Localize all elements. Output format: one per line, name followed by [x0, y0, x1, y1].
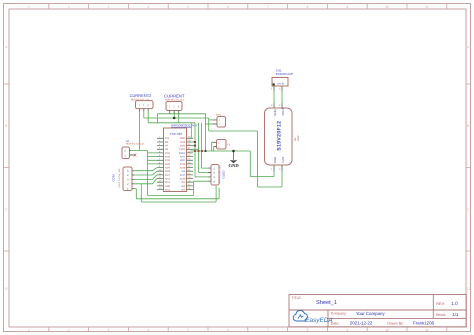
junction at CURRENT.2 [173, 117, 175, 119]
wire V9 [249, 151, 251, 177]
svg-text:IO22: IO22 [180, 145, 186, 148]
MCU U2 pin numbers [159, 136, 191, 190]
svg-text:+VIN: +VIN [281, 157, 285, 164]
svg-text:6: 6 [227, 5, 229, 9]
svg-text:GND: GND [273, 157, 277, 163]
connector COM (1x5) [111, 167, 134, 191]
wire COM.5 to U2 [134, 168, 157, 171]
wire COM.3 to U2 [134, 175, 157, 179]
svg-text:4: 4 [147, 328, 149, 332]
wire H_c y122.8 [148, 122, 195, 124]
title block [289, 295, 466, 327]
svg-text:4: 4 [147, 5, 149, 9]
wire H_a y114.5 [158, 113, 206, 115]
svg-text:IO26: IO26 [165, 170, 171, 173]
wire U2 pin19 to OLED.2 riser [193, 123, 208, 173]
svg-text:9: 9 [346, 5, 348, 9]
svg-text:Your Company: Your Company [356, 311, 386, 316]
wire CURRENT.1 down [169, 113, 171, 115]
wire CURRENT2.3 down [147, 112, 149, 123]
svg-text:GND: GND [273, 109, 277, 115]
svg-text:REV:: REV: [436, 302, 445, 306]
svg-text:IO34: IO34 [165, 152, 171, 155]
connector CURRENT (J1) [164, 94, 185, 114]
svg-text:IO14: IO14 [165, 178, 171, 181]
wires (green) [131, 91, 282, 203]
junction GND row a [194, 150, 196, 152]
connector CURRENT2 (J2) [130, 93, 153, 112]
svg-text:TITLE:: TITLE: [292, 296, 302, 300]
svg-text:1/1: 1/1 [452, 312, 459, 317]
svg-text:3V3: 3V3 [165, 137, 170, 140]
wire V7 [208, 118, 210, 131]
wire OLED.4 drop [194, 181, 208, 195]
svg-text:12V IN: 12V IN [277, 83, 284, 86]
svg-text:10: 10 [385, 328, 389, 332]
svg-text:VN: VN [165, 148, 169, 151]
regulator U1 S19V20F12 [265, 103, 301, 172]
2-pin part F1 [212, 140, 231, 150]
svg-text:EasyEDA: EasyEDA [305, 317, 332, 324]
svg-text:Drawn By:: Drawn By: [387, 321, 404, 325]
svg-text:5: 5 [187, 5, 189, 9]
svg-text:IO18: IO18 [180, 167, 186, 170]
svg-text:RXD0: RXD0 [179, 152, 186, 155]
svg-text:IO16: IO16 [180, 178, 186, 181]
wire V6 [205, 114, 207, 151]
wire U2 left rows [148, 153, 158, 164]
svg-text:GND: GND [180, 137, 185, 140]
wire OLED.3 to V_c [195, 176, 208, 178]
wire H_k to U1 GND [250, 176, 274, 178]
wire V_c [194, 123, 196, 177]
wire H_b y118 [144, 117, 209, 119]
svg-text:ESP-32S: ESP-32S [170, 132, 182, 136]
svg-text:9: 9 [346, 328, 348, 332]
wire H4.2 run [131, 149, 148, 151]
wire CURRENT.3 down [178, 114, 180, 123]
svg-text:5: 5 [187, 328, 189, 332]
wire W2 bottom [141, 184, 216, 202]
svg-text:IO23: IO23 [180, 141, 186, 144]
junction GND row b [198, 150, 200, 152]
svg-text:8: 8 [307, 328, 309, 332]
svg-text:IO13: IO13 [165, 188, 171, 191]
connector OLED (1x4) [208, 165, 226, 186]
svg-text:7: 7 [267, 5, 269, 9]
svg-text:Sheet:: Sheet: [436, 313, 446, 317]
connector CN1 EX30RV-02P [271, 69, 293, 91]
svg-text:HDR-F-2.54_1x2: HDR-F-2.54_1x2 [126, 143, 145, 146]
wire F1.2 drop [213, 147, 215, 152]
svg-text:WROOM32DEVKIT: WROOM32DEVKIT [171, 124, 198, 128]
svg-text:+12V: +12V [297, 135, 300, 141]
svg-text:3: 3 [108, 328, 110, 332]
wire COM.4 to U2 [134, 172, 157, 176]
svg-text:VOUT: VOUT [281, 108, 285, 116]
wire COM.1 drop [134, 189, 136, 199]
EasyEDA logo [293, 310, 332, 323]
wire U1 pin2 drop [281, 172, 283, 188]
junction GND row c [201, 150, 203, 152]
svg-text:2: 2 [68, 328, 70, 332]
svg-text:IO32: IO32 [165, 159, 171, 162]
svg-text:1: 1 [28, 5, 30, 9]
ground GND [228, 151, 239, 168]
svg-text:2021-12-22: 2021-12-22 [350, 321, 373, 326]
wire CN1.2 to U1.4 [281, 91, 283, 104]
svg-text:EN: EN [165, 141, 169, 144]
svg-text:GND: GND [228, 163, 239, 168]
svg-text:GND: GND [165, 185, 170, 188]
svg-text:IO35: IO35 [165, 156, 171, 159]
MCU U2 pin names [165, 137, 186, 191]
wire COM.2 to U2 [134, 179, 157, 184]
junction U2 pin18 [194, 145, 196, 147]
svg-text:COM: COM [111, 174, 115, 182]
svg-text:IO27: IO27 [165, 174, 171, 177]
wire CURRENT.2 down [173, 114, 175, 118]
svg-text:2: 2 [68, 5, 70, 9]
connector H4 HDR-F-2.54_1x2 [122, 140, 145, 159]
svg-text:1: 1 [28, 328, 30, 332]
svg-text:IO17: IO17 [180, 174, 186, 177]
svg-text:OLED: OLED [221, 170, 225, 179]
svg-text:VP: VP [165, 145, 169, 148]
wire CURRENT2.2 down [143, 112, 145, 118]
svg-text:11: 11 [425, 5, 429, 9]
wire SW1.2 [206, 123, 213, 125]
svg-text:EX30RV-02P: EX30RV-02P [276, 72, 293, 76]
svg-text:IO19: IO19 [180, 163, 186, 166]
wire CURRENT2.1 down [139, 112, 141, 151]
svg-text:8: 8 [307, 5, 309, 9]
svg-text:IO12: IO12 [165, 181, 171, 184]
wire +12V run [209, 131, 282, 187]
svg-text:3: 3 [108, 5, 110, 9]
wire CN1.1 to U1.3 [273, 91, 275, 104]
wire junction row y151 [191, 150, 251, 152]
wire H_o [148, 194, 194, 196]
wire U1 pin1 drop [273, 172, 275, 177]
svg-text:IO25: IO25 [165, 167, 171, 170]
2-pin part SW1 [212, 114, 225, 127]
MCU U2 ESP32 module [164, 124, 198, 192]
svg-text:Frank1208: Frank1208 [413, 321, 435, 326]
svg-text:11: 11 [425, 328, 429, 332]
svg-text:Company:: Company: [331, 312, 347, 316]
wire SW1.1 [209, 119, 213, 121]
svg-text:IO21: IO21 [180, 156, 186, 159]
wire U2 pin17 to V_c [193, 141, 195, 143]
svg-text:7: 7 [267, 328, 269, 332]
MCU U2 pin stubs [157, 138, 193, 189]
svg-text:IO33: IO33 [165, 163, 171, 166]
wire F1.1 drop [211, 142, 213, 151]
wire W1 bottom [136, 188, 219, 199]
junction GND row d [205, 150, 207, 152]
svg-text:1.0: 1.0 [451, 301, 458, 306]
svg-text:6: 6 [227, 328, 229, 332]
svg-text:10: 10 [385, 5, 389, 9]
svg-text:Sheet_1: Sheet_1 [316, 299, 337, 306]
svg-text:TXD0: TXD0 [179, 148, 186, 151]
wire U2 pin18 to V_c [193, 145, 195, 147]
junction at ground symbol [232, 150, 234, 152]
wire U2 pin16 riser [190, 123, 192, 139]
svg-text:HDR-F-2.54_1x5: HDR-F-2.54_1x5 [118, 168, 121, 188]
wire OLED.1 riser [201, 123, 207, 168]
wire V5 [157, 114, 159, 123]
wire V_long [147, 150, 149, 195]
svg-text:GND: GND [180, 159, 185, 162]
svg-text:S19V20F12: S19V20F12 [276, 121, 282, 151]
junction U2 pin17 [194, 141, 196, 143]
